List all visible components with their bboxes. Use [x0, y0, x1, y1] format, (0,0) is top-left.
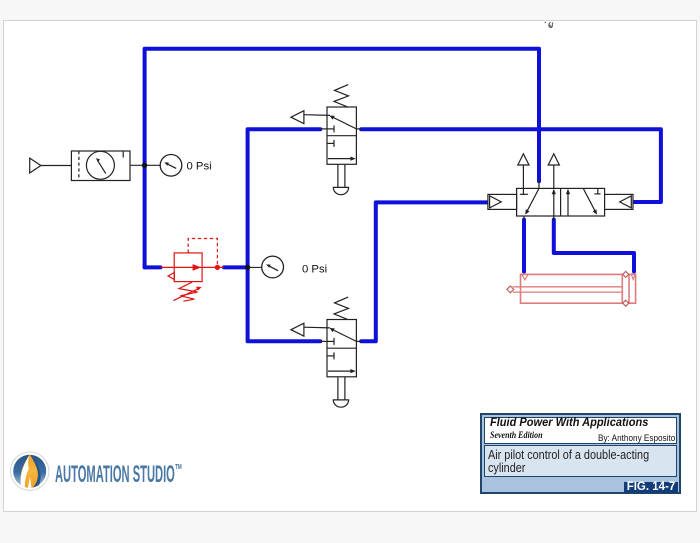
- V3 bottom stubs: [523, 216, 525, 220]
- valve V1: 3/2 NC pilot/spring valve (top): [291, 85, 362, 195]
- V3 left pilot: [488, 194, 517, 209]
- wire: top 3/2 valve output to right pilot of 5/2: [361, 129, 661, 202]
- V2 bottom box: blocked exhaust: [327, 355, 334, 357]
- V3 right box: vertical path: [567, 191, 569, 217]
- V2 bottom box: through path: [328, 370, 354, 372]
- port notch right: [631, 275, 635, 280]
- V3 left box: blocked exhaust stub: [522, 188, 524, 194]
- wire: 5/2 port A to cylinder left port: [522, 220, 526, 272]
- V3 left box: supply-to-A diagonal: [527, 188, 540, 212]
- gauge G1: [160, 155, 182, 177]
- gauge G2: [248, 256, 284, 278]
- V1 bottom box: blocked exhaust: [327, 142, 334, 144]
- V1 bottom box: through path: [328, 158, 354, 160]
- V3 left box: B-to-exhaust path: [553, 191, 555, 217]
- wire: bottom 3/2 valve output to left pilot of 5/2: [361, 202, 489, 341]
- Automation Studio logo ball: [11, 452, 49, 491]
- V1 spring: [334, 85, 349, 107]
- V3 supply stub (port 1): [538, 181, 540, 188]
- wire: regulator outlet to riser2: [224, 265, 248, 269]
- junction riser2 / regulator out / gauge G2: [245, 265, 250, 270]
- V1 top box: outlet-to-exhaust path: [331, 116, 357, 129]
- wire: main supply loop (riser1 + top run + drop to 5/2 supply): [145, 49, 539, 268]
- tiny scroll glyph: [545, 22, 554, 28]
- svg-text:0 Psi: 0 Psi: [302, 263, 327, 275]
- V2 top box: outlet-to-exhaust path: [331, 329, 357, 342]
- FRL / air service unit: [71, 151, 160, 181]
- connection diamonds: [507, 286, 514, 293]
- V2 exhaust line + triangle: [304, 326, 330, 329]
- cylinder: double-acting (red): [507, 271, 636, 306]
- pressure regulator (red): [161, 239, 225, 302]
- wire: riser2 (feeds both 3/2 valves): [248, 129, 321, 341]
- piston: [621, 274, 623, 303]
- V2 spring: [334, 297, 349, 319]
- title block: [480, 413, 681, 494]
- svg-text:0 Psi: 0 Psi: [187, 160, 212, 172]
- wire: riser1 to regulator inlet: [145, 265, 161, 267]
- V3 exhaust triangle left (port 5): [522, 165, 524, 188]
- port notch left: [522, 275, 528, 280]
- V1 push button: [337, 164, 339, 187]
- V1 top box: blocked inlet: [320, 128, 334, 130]
- logo wordmark: [55, 457, 182, 489]
- V3 right box: diagonal path: [583, 188, 596, 212]
- V3 exhaust triangle right (port 3): [553, 165, 555, 188]
- V2 push button: [337, 377, 339, 400]
- V3 right box: blocked stub: [597, 188, 599, 194]
- V1 exhaust line + triangle: [304, 114, 330, 117]
- wire: 5/2 port B to cylinder right port: [554, 220, 634, 272]
- valve V2: 3/2 NC pilot/spring valve (bottom): [291, 297, 362, 407]
- air source: [30, 158, 72, 173]
- V1 outlet stub: [356, 128, 361, 130]
- V2 outlet stub: [356, 340, 361, 342]
- valve V3: 5/2 double air pilot valve: [488, 154, 633, 220]
- red pilot junction dot: [215, 265, 220, 270]
- junction on riser1: [142, 163, 147, 168]
- V2 top box: blocked inlet: [320, 340, 334, 342]
- V3 right pilot: [605, 194, 633, 209]
- rod: [513, 286, 623, 288]
